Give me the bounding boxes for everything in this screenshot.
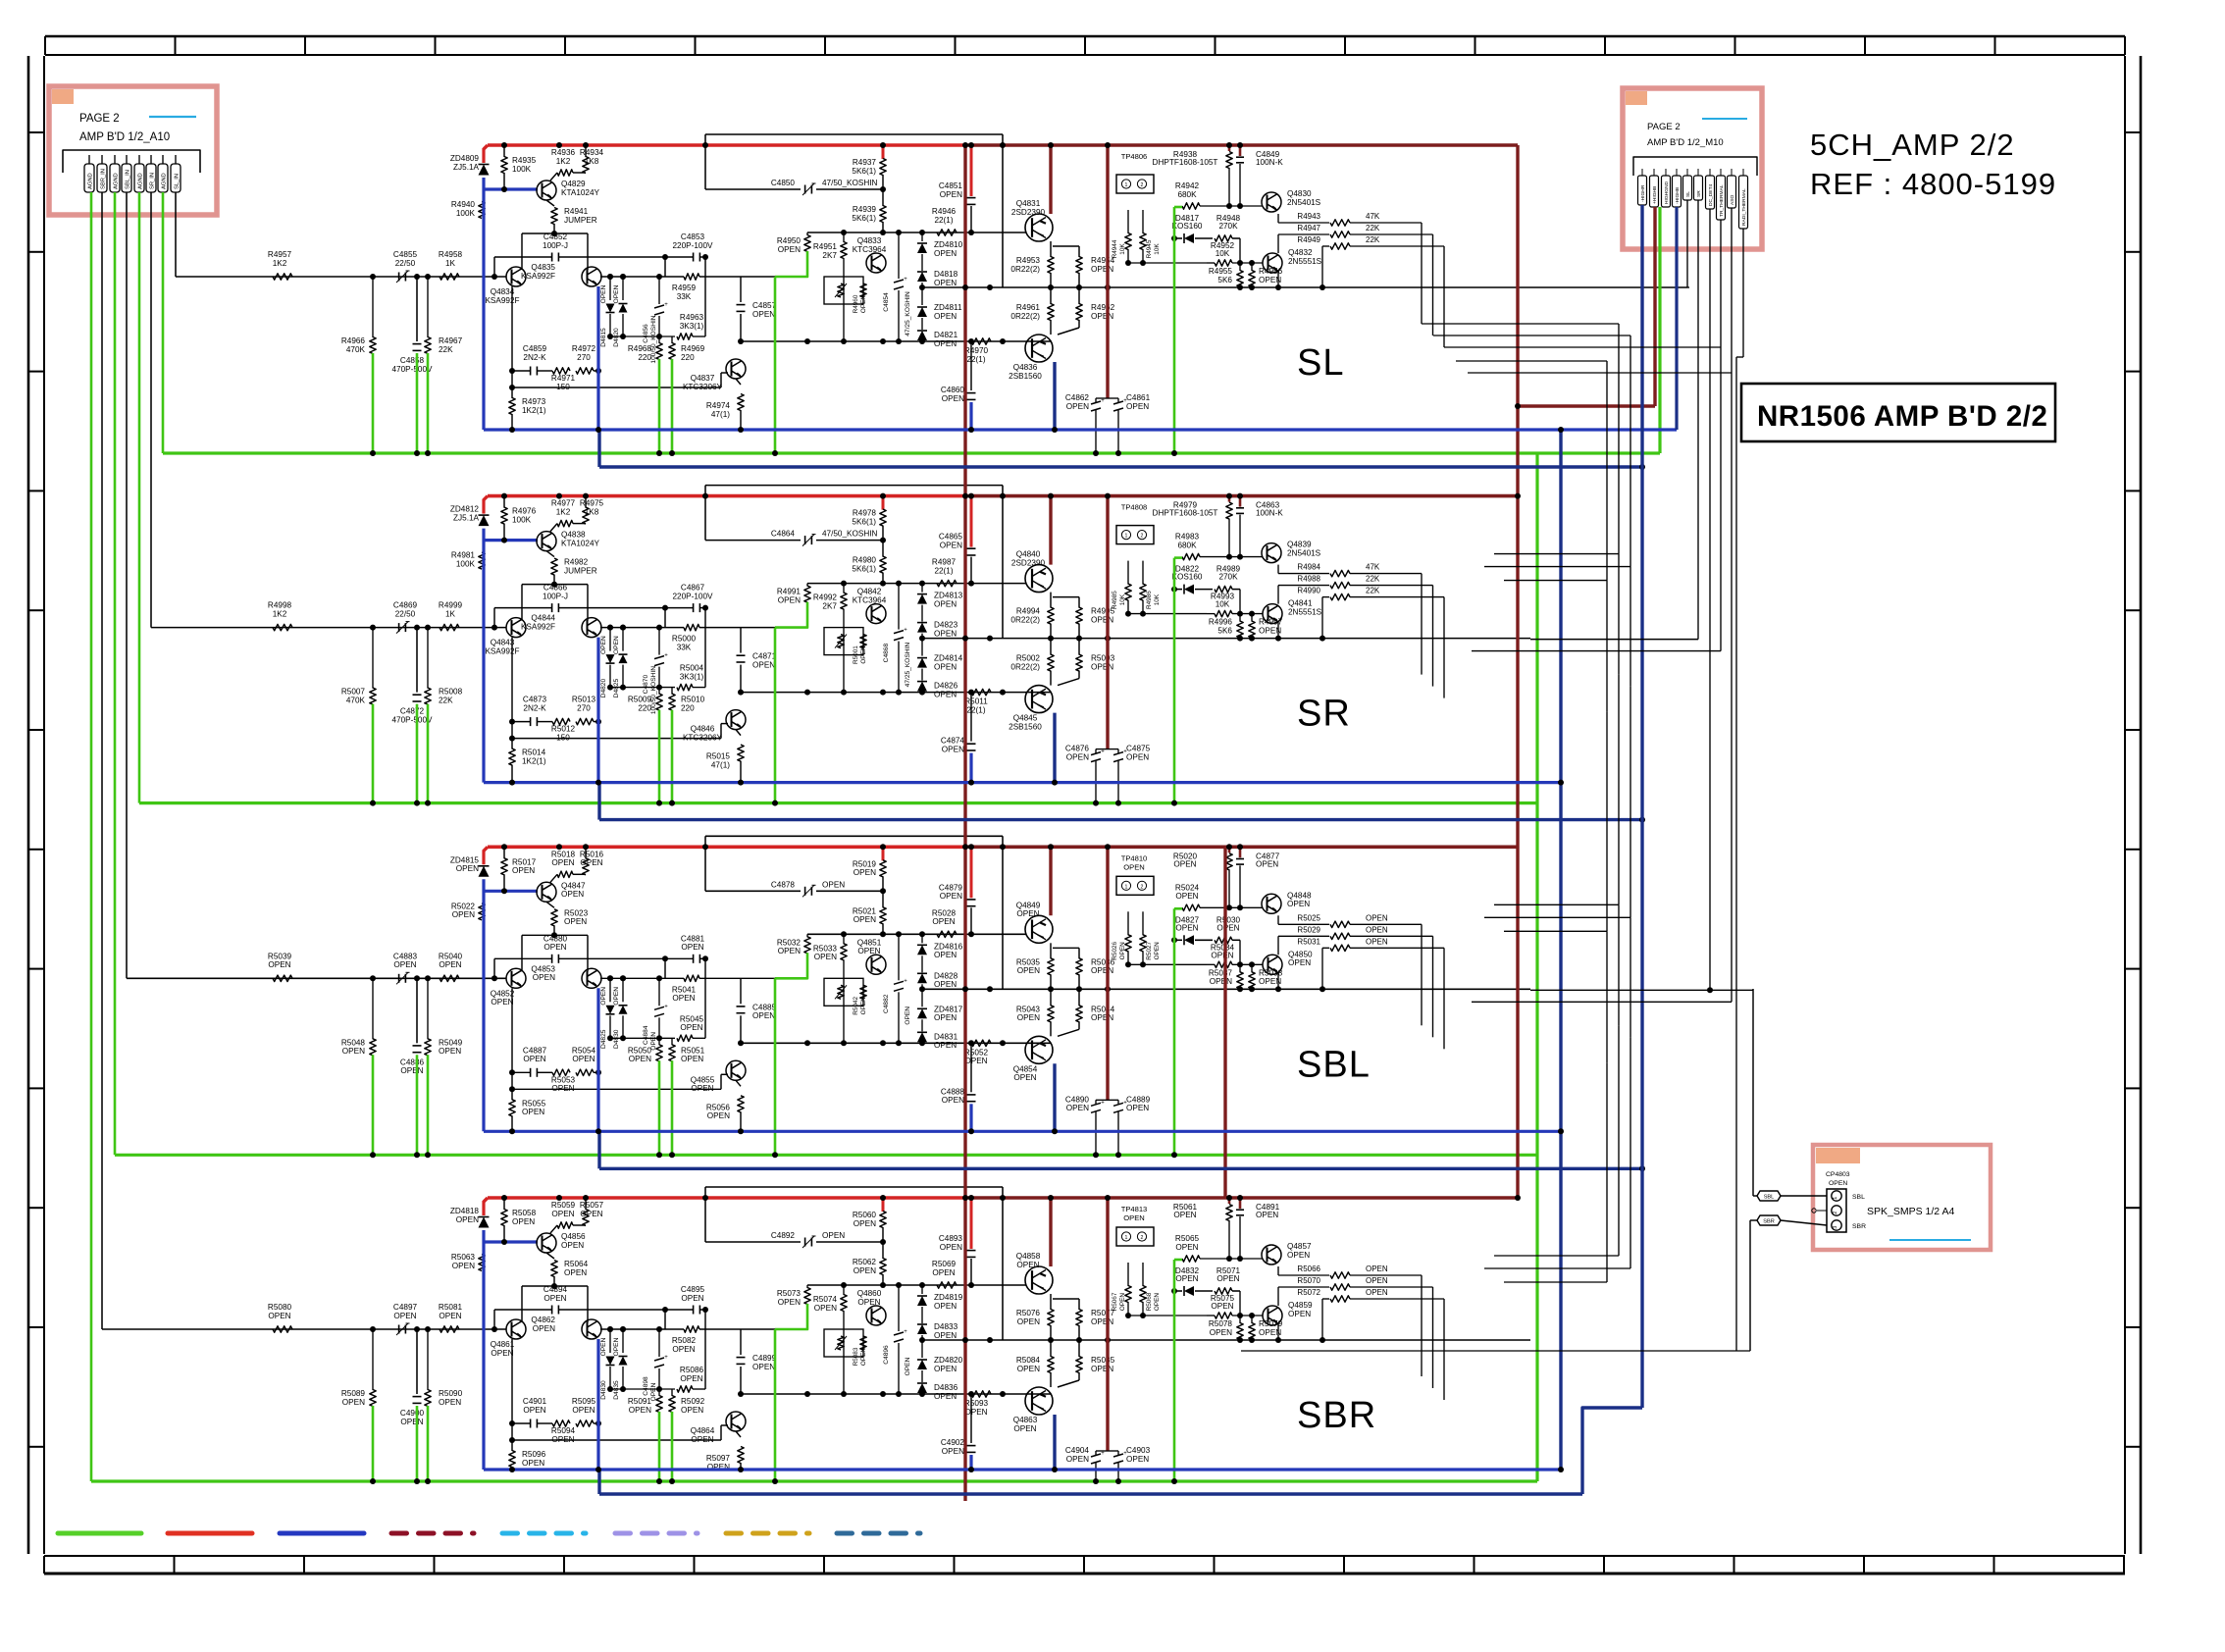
- svg-text:C4875: C4875: [1126, 745, 1151, 753]
- svg-text:R4972: R4972: [572, 344, 596, 353]
- svg-text:47(1): 47(1): [711, 760, 730, 769]
- capacitor C4878 bypass: [705, 890, 801, 892]
- resistor R5059: [557, 1222, 573, 1228]
- svg-text:C4852: C4852: [543, 232, 568, 241]
- bias trimmer loop R5001: [824, 628, 863, 655]
- resistor R5051: [671, 1038, 673, 1045]
- svg-text:D4825: D4825: [600, 1029, 607, 1049]
- capacitor C4894 feedback: [494, 1309, 551, 1311]
- svg-text:R5055: R5055: [522, 1099, 546, 1108]
- svg-text:OPEN: OPEN: [934, 1365, 957, 1373]
- wire output row SBR: [922, 1339, 1530, 1341]
- svg-text:OPEN: OPEN: [561, 890, 584, 899]
- svg-text:R5004: R5004: [680, 664, 704, 673]
- svg-text:OPEN: OPEN: [778, 1298, 801, 1307]
- page-link box AMP B'D 1/2_A10: [49, 86, 217, 215]
- svg-text:0R22(2): 0R22(2): [1010, 265, 1040, 274]
- svg-text:R5032: R5032: [777, 938, 802, 947]
- svg-text:R5066: R5066: [1297, 1265, 1320, 1273]
- svg-text:OPEN: OPEN: [452, 1262, 475, 1270]
- diode D4826: [921, 669, 923, 681]
- resistor R5011: [971, 689, 991, 695]
- wire Q4836 emitter navy SR: [1053, 713, 1056, 783]
- capacitor C4877: [1239, 847, 1242, 857]
- svg-text:SR: SR: [1297, 694, 1351, 735]
- svg-text:R5015: R5015: [706, 752, 731, 761]
- svg-text:D4820: D4820: [600, 679, 607, 698]
- resistor R5008: [427, 628, 429, 689]
- svg-text:KSA992F: KSA992F: [485, 646, 519, 655]
- capacitor C4904: [1091, 1454, 1101, 1457]
- svg-text:C4861: C4861: [1126, 393, 1151, 402]
- resistor R4971: [552, 368, 570, 374]
- svg-text:R4960: R4960: [853, 294, 859, 313]
- svg-text:OPEN: OPEN: [1091, 1365, 1113, 1373]
- svg-text:OPEN: OPEN: [672, 1345, 695, 1354]
- svg-text:R5019: R5019: [853, 859, 877, 868]
- svg-text:R4992: R4992: [813, 594, 838, 602]
- svg-text:R5014: R5014: [522, 749, 546, 757]
- wire bypass left leg SBR: [704, 1310, 706, 1389]
- resistor R5007 input shunt: [372, 628, 374, 689]
- svg-text:OPEN: OPEN: [1287, 1251, 1310, 1260]
- capacitor C4860: [970, 341, 972, 390]
- capacitor C4889: [1113, 1103, 1123, 1106]
- svg-text:OPEN: OPEN: [629, 1406, 651, 1415]
- svg-text:47(1): 47(1): [711, 410, 730, 419]
- blue -B rail SBR: [482, 1230, 485, 1470]
- svg-text:270: 270: [577, 703, 591, 712]
- svg-text:OPEN: OPEN: [942, 745, 964, 753]
- resistor R5073: [806, 1285, 808, 1288]
- svg-text:680K: 680K: [1177, 541, 1197, 549]
- transistor Q4855 driver: [726, 1060, 746, 1080]
- wire TP bleed row SBL: [1128, 963, 1207, 965]
- diode D4822: [1174, 589, 1182, 591]
- svg-text:ZD4811: ZD4811: [934, 303, 962, 312]
- svg-text:C4894: C4894: [543, 1285, 568, 1294]
- transistor Q4856: [537, 1233, 556, 1253]
- svg-text:OPEN: OPEN: [613, 636, 620, 654]
- wire SR_IN from connector: [150, 192, 152, 628]
- trio extension verticals per block: [1350, 222, 1422, 224]
- cyan link underline: [149, 116, 196, 118]
- transistor Q4843 input pair: [506, 618, 526, 638]
- svg-text:R4956: R4956: [1259, 267, 1283, 276]
- svg-text:Q4833: Q4833: [857, 236, 882, 245]
- svg-text:SBL_IN: SBL_IN: [125, 170, 130, 189]
- svg-text:OPEN: OPEN: [600, 636, 607, 654]
- svg-text:OPEN: OPEN: [522, 1459, 544, 1468]
- svg-text:3: 3: [1833, 1226, 1838, 1229]
- capacitor C4853: [665, 256, 693, 258]
- connector bracket A10: [63, 150, 200, 173]
- wire feedback row SR: [512, 738, 721, 740]
- svg-text:100P-J: 100P-J: [543, 241, 568, 250]
- svg-text:100K: 100K: [456, 209, 476, 218]
- resistor R5019: [882, 847, 885, 860]
- svg-text:1K2: 1K2: [556, 157, 571, 166]
- page-link box AMP B'D 1/2_M10: [1623, 88, 1762, 249]
- svg-text:R5041: R5041: [672, 985, 697, 994]
- connector bracket M10: [1633, 157, 1757, 176]
- svg-text:R4958: R4958: [439, 250, 463, 259]
- wire greens below R4968 R4969 SBR: [658, 1412, 661, 1481]
- svg-text:OPEN: OPEN: [1288, 958, 1311, 967]
- svg-text:47/50_KOSHIN: 47/50_KOSHIN: [822, 179, 878, 187]
- svg-text:OPEN: OPEN: [934, 1041, 957, 1050]
- svg-text:OPEN: OPEN: [342, 1047, 365, 1056]
- svg-text:OPEN: OPEN: [439, 1398, 461, 1407]
- svg-text:Q4860: Q4860: [857, 1289, 882, 1298]
- svg-text:ZJ5.1A: ZJ5.1A: [453, 513, 479, 522]
- resistor R5057: [585, 1198, 587, 1210]
- wire Q4832 emitter to output row SL: [1237, 284, 1243, 290]
- resistor R4951: [843, 232, 845, 242]
- maroon bus extension SR: [966, 494, 1518, 498]
- resistor R5028: [937, 931, 957, 937]
- svg-text:R5086: R5086: [680, 1366, 704, 1374]
- svg-text:R4955: R4955: [1209, 267, 1233, 276]
- svg-text:22(1): 22(1): [934, 566, 953, 575]
- svg-text:R5056: R5056: [706, 1103, 731, 1111]
- svg-text:C4879: C4879: [939, 883, 963, 892]
- svg-text:KTA1024Y: KTA1024Y: [561, 188, 600, 197]
- svg-text:R5042: R5042: [853, 996, 859, 1014]
- svg-text:C4880: C4880: [543, 934, 568, 943]
- svg-text:R5093: R5093: [964, 1399, 989, 1408]
- wire C4850 bypass loop top SBR: [705, 1186, 1003, 1188]
- svg-text:2N5551S: 2N5551S: [1288, 257, 1322, 266]
- svg-text:1K: 1K: [445, 259, 456, 268]
- svg-text:R5003: R5003: [1091, 654, 1115, 663]
- maroon trunk SBL to SBR: [1223, 847, 1226, 1198]
- svg-text:OPEN: OPEN: [1091, 1013, 1113, 1022]
- capacitor C4884: [658, 978, 660, 1006]
- wire Q4832 emitter to output row SBL: [1237, 986, 1243, 992]
- svg-text:OPEN: OPEN: [580, 858, 602, 867]
- resistor R5036: [1078, 948, 1080, 958]
- svg-text:Q4831: Q4831: [1016, 199, 1041, 208]
- svg-text:OPEN: OPEN: [932, 917, 955, 926]
- zener ZD4817: [921, 989, 923, 1007]
- svg-text:470K: 470K: [346, 696, 366, 704]
- transistor Q4841: [1263, 604, 1282, 624]
- svg-text:C4855: C4855: [393, 250, 418, 259]
- svg-text:R4997: R4997: [1259, 618, 1283, 627]
- resistor R4988: [1278, 585, 1329, 587]
- resistor R4991: [806, 584, 808, 587]
- svg-text:OPEN: OPEN: [860, 1348, 867, 1366]
- resistor R5016: [585, 847, 587, 858]
- svg-text:R4951: R4951: [813, 242, 838, 251]
- svg-text:100/50_KOSHIN: 100/50_KOSHIN: [650, 315, 657, 363]
- power transistor Q4863: [1025, 1387, 1053, 1415]
- svg-text:R4999: R4999: [439, 601, 463, 610]
- svg-text:-HIGHR: -HIGHR: [1640, 184, 1646, 202]
- svg-text:DC_DET4: DC_DET4: [1708, 183, 1714, 206]
- resistor R5062: [882, 1242, 884, 1259]
- svg-text:OPEN: OPEN: [629, 1055, 651, 1063]
- svg-text:Q4829: Q4829: [561, 180, 586, 188]
- resistor R4958: [440, 274, 459, 280]
- wire diff pair collector rail SBL: [522, 934, 588, 936]
- capacitor C4854: [898, 232, 900, 279]
- svg-text:100N-K: 100N-K: [1256, 509, 1283, 518]
- svg-text:R4943: R4943: [1297, 212, 1320, 221]
- resistor R5074: [843, 1285, 845, 1295]
- svg-text:SL: SL: [1685, 191, 1691, 197]
- transistor Q4860 bias: [866, 1306, 886, 1325]
- resistor R4957 input: [273, 274, 292, 280]
- navy SBR wrap: [1582, 1408, 1642, 1494]
- resistor R5092: [671, 1389, 673, 1396]
- resistor R5038: [1251, 964, 1253, 972]
- resistor R5082: [600, 1328, 684, 1330]
- resistor R4953: [1050, 241, 1052, 257]
- svg-text:R5022: R5022: [451, 902, 476, 910]
- svg-text:OPEN: OPEN: [1211, 951, 1233, 959]
- svg-text:100K: 100K: [456, 559, 476, 568]
- resistor R4938: [1228, 145, 1231, 151]
- wire -B node row to Q4829 base SBR: [484, 1240, 538, 1243]
- +B red bus SBL: [488, 845, 966, 849]
- svg-text:C4864: C4864: [771, 530, 796, 539]
- svg-text:OPEN: OPEN: [1066, 1104, 1089, 1112]
- svg-text:1K: 1K: [445, 609, 456, 618]
- maroon link to +HIGHB pin: [1518, 404, 1655, 407]
- resistor R4994: [1050, 593, 1052, 608]
- svg-text:OPEN: OPEN: [1017, 1013, 1040, 1022]
- wire output row SBL: [922, 988, 1530, 990]
- svg-text:OPEN: OPEN: [752, 1363, 775, 1371]
- transistor Q4862 input pair: [582, 1319, 601, 1339]
- wire green VAS tail SBR: [775, 1304, 807, 1329]
- svg-text:OPEN: OPEN: [681, 1055, 703, 1063]
- svg-text:OPEN: OPEN: [1256, 859, 1278, 868]
- power transistor Q4840: [1025, 565, 1053, 593]
- svg-text:1: 1: [1125, 1235, 1128, 1241]
- diode D4833: [921, 1307, 923, 1323]
- diode D4823: [921, 605, 923, 622]
- svg-text:22/50: 22/50: [395, 609, 416, 618]
- svg-text:R4946: R4946: [932, 207, 957, 216]
- diode D4817: [1174, 237, 1182, 239]
- svg-text:OPEN: OPEN: [860, 295, 867, 313]
- svg-text:C4895: C4895: [681, 1285, 705, 1294]
- svg-text:2SB1560: 2SB1560: [1009, 372, 1042, 381]
- svg-text:100N-K: 100N-K: [1256, 158, 1283, 167]
- zener ZD4812: [482, 499, 485, 514]
- resistor R4940 in -B feed: [479, 202, 485, 219]
- resistor R4947: [1278, 233, 1329, 235]
- maroon right trunk: [1516, 145, 1519, 1198]
- power transistor Q4836: [1025, 335, 1053, 362]
- diode D4836: [921, 1370, 923, 1382]
- wire AGND drops to green rail SL: [372, 353, 375, 453]
- svg-text:ZD4810: ZD4810: [934, 240, 963, 249]
- svg-text:R4936: R4936: [551, 148, 576, 157]
- svg-text:R5078: R5078: [1209, 1319, 1233, 1328]
- svg-text:OPEN: OPEN: [822, 880, 845, 889]
- resistor R4973: [511, 387, 513, 398]
- svg-text:R4940: R4940: [451, 200, 476, 209]
- capacitor C4891: [1239, 1198, 1242, 1209]
- resistor R4952: [1215, 260, 1232, 266]
- svg-text:C4878: C4878: [771, 880, 796, 889]
- svg-text:22K: 22K: [439, 696, 453, 704]
- svg-text:Q4830: Q4830: [1287, 189, 1312, 198]
- svg-text:+: +: [664, 1355, 668, 1361]
- svg-text:Q4842: Q4842: [857, 588, 882, 596]
- svg-text:ZD4820: ZD4820: [934, 1356, 963, 1365]
- capacitor C4900: [416, 1329, 418, 1394]
- resistor R4943: [1277, 214, 1279, 223]
- capacitor C4870: [658, 628, 660, 655]
- +B red bus SR: [488, 494, 966, 498]
- wire AGND drops to green rail SBL: [372, 1055, 375, 1155]
- svg-text:D4823: D4823: [934, 621, 958, 630]
- resistor R5091: [658, 1389, 660, 1396]
- svg-text:R4978: R4978: [853, 509, 877, 518]
- svg-text:OPEN: OPEN: [1066, 752, 1089, 761]
- svg-text:OPEN: OPEN: [1016, 1261, 1039, 1269]
- capacitor C4897 input coupling: [398, 1325, 400, 1334]
- resistor R5097: [736, 1431, 741, 1437]
- svg-text:1K2: 1K2: [273, 259, 287, 268]
- capacitor C4902: [970, 1394, 972, 1443]
- resistor R5023 jumper: [546, 902, 554, 907]
- wire input row SL: [258, 276, 506, 278]
- transistor Q4846 driver: [726, 710, 746, 730]
- svg-text:0R22(2): 0R22(2): [1010, 615, 1040, 624]
- capacitor C4881: [665, 957, 693, 959]
- transistor Q4838: [537, 532, 556, 551]
- svg-text:OPEN: OPEN: [523, 1055, 545, 1063]
- resistor R5033: [843, 934, 845, 944]
- green ground rail SR: [139, 801, 1537, 804]
- svg-text:Q4856: Q4856: [561, 1232, 586, 1241]
- sheet border frame right band: [2124, 56, 2126, 1554]
- svg-text:Q4863: Q4863: [1013, 1416, 1038, 1424]
- svg-text:OPEN: OPEN: [456, 864, 479, 873]
- svg-text:OPEN: OPEN: [551, 858, 574, 867]
- capacitor C4869 input coupling: [398, 623, 400, 632]
- svg-text:+: +: [904, 277, 907, 283]
- svg-text:Q4848: Q4848: [1287, 891, 1312, 900]
- svg-text:Q4838: Q4838: [561, 531, 586, 540]
- wire diff pair collector rail SR: [522, 584, 588, 586]
- svg-text:270: 270: [577, 353, 591, 362]
- resistor R4941 jumper: [546, 200, 554, 206]
- svg-text:OPEN: OPEN: [533, 973, 555, 982]
- resistor R4996: [1239, 614, 1241, 622]
- svg-text:220: 220: [638, 703, 651, 712]
- svg-text:+: +: [1101, 1100, 1105, 1106]
- svg-text:C4876: C4876: [1065, 745, 1090, 753]
- svg-text:R4934: R4934: [580, 148, 604, 157]
- svg-text:100K: 100K: [512, 165, 532, 174]
- svg-text:R5057: R5057: [580, 1201, 604, 1210]
- svg-text:OPEN: OPEN: [934, 951, 957, 959]
- svg-text:R4998: R4998: [268, 601, 292, 610]
- sense fan lines to connector pins: [1686, 200, 1688, 287]
- resistor R4966 input shunt: [372, 277, 374, 337]
- svg-text:R5009: R5009: [628, 696, 652, 704]
- svg-text:22/50: 22/50: [395, 259, 416, 268]
- wire AGND green drop for SR: [138, 192, 141, 803]
- svg-text:ZD4812: ZD4812: [450, 505, 480, 514]
- svg-text:OPEN: OPEN: [934, 980, 957, 989]
- resistor R5050: [658, 1038, 660, 1045]
- wire Q4832 emitter to output row SBR: [1237, 1337, 1243, 1343]
- svg-text:ZD4816: ZD4816: [934, 942, 963, 951]
- svg-text:C4888: C4888: [941, 1087, 965, 1096]
- svg-text:R5060: R5060: [853, 1211, 877, 1219]
- svg-text:HIGHGND: HIGHGND: [1664, 181, 1670, 204]
- svg-text:Q4847: Q4847: [561, 881, 586, 890]
- wire Q4832 emitter to output row SR: [1237, 636, 1243, 642]
- svg-text:C4867: C4867: [681, 584, 705, 593]
- resistor R4999: [440, 624, 459, 630]
- transistor Q4864 driver: [726, 1412, 746, 1431]
- svg-text:Q4844: Q4844: [531, 614, 555, 623]
- resistor R4967: [427, 277, 429, 337]
- resistor R4936: [557, 170, 573, 176]
- capacitor C4865: [970, 496, 973, 547]
- navy speaker return rail SBL: [597, 1131, 600, 1168]
- svg-text:R4981: R4981: [451, 551, 476, 560]
- wire lower bias row SR: [741, 692, 1051, 694]
- resistor R5079: [1251, 1316, 1253, 1323]
- svg-text:D4825: D4825: [613, 679, 620, 698]
- capacitor C4859: [530, 367, 532, 376]
- svg-text:R4939: R4939: [853, 205, 877, 214]
- diode pair D4830 D4835: [609, 1329, 611, 1353]
- svg-text:R5031: R5031: [1297, 937, 1320, 946]
- svg-text:R4988: R4988: [1297, 575, 1320, 584]
- resistor R5048 input shunt: [372, 978, 374, 1039]
- svg-text:Q4834: Q4834: [491, 287, 515, 296]
- svg-text:KTC3964: KTC3964: [853, 595, 887, 604]
- resistor R5013: [576, 718, 594, 724]
- svg-text:OPEN: OPEN: [964, 1057, 987, 1065]
- svg-text:R4963: R4963: [680, 313, 704, 322]
- svg-text:47K: 47K: [1366, 563, 1380, 572]
- transistor Q4844 input pair: [582, 618, 601, 638]
- svg-text:OPEN: OPEN: [1173, 859, 1196, 868]
- resistor R5045: [610, 1037, 675, 1039]
- svg-text:R4991: R4991: [777, 588, 802, 596]
- svg-text:+: +: [1101, 1451, 1105, 1457]
- resistor R5041: [600, 977, 684, 979]
- diode D4831: [921, 1019, 923, 1031]
- svg-text:1K2(1): 1K2(1): [522, 406, 546, 415]
- svg-text:Q4832: Q4832: [1288, 248, 1313, 257]
- svg-text:OPEN: OPEN: [1126, 752, 1149, 761]
- wire VAS node row SL: [807, 232, 1026, 233]
- page-link box SPK_SMPS 1/2 A4: [1813, 1145, 1991, 1250]
- svg-text:R5039: R5039: [268, 952, 292, 960]
- svg-text:47/25_KOSHIN: 47/25_KOSHIN: [905, 643, 911, 688]
- svg-text:OPEN: OPEN: [564, 917, 587, 926]
- svg-text:OPEN: OPEN: [905, 1007, 911, 1025]
- resistor R4963: [610, 336, 675, 337]
- wire -B node row to Q4829 base SBL: [484, 890, 538, 893]
- maroon dropper to local caps SL: [1106, 145, 1109, 398]
- wire TP bleed row SL: [1128, 262, 1207, 264]
- svg-text:2: 2: [1141, 1235, 1144, 1241]
